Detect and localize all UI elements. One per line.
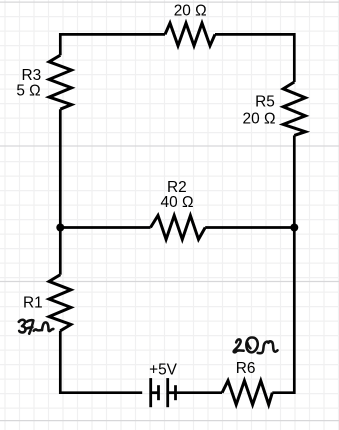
svg-text:20 Ω: 20 Ω — [174, 3, 207, 20]
battery +5V (two cells) — [151, 378, 176, 407]
resistor R3 (5 ohm) zigzag — [49, 55, 71, 109]
node: right middle junction — [290, 224, 298, 232]
resistor R2 (40 ohm) zigzag — [151, 216, 206, 240]
wire: middle branch, left junction to R2 — [60, 226, 150, 229]
svg-text:R6: R6 — [236, 360, 256, 377]
svg-text:R5: R5 — [255, 93, 275, 110]
svg-text:40 Ω: 40 Ω — [161, 194, 194, 211]
resistor 20 ohm (top) zigzag — [165, 23, 215, 46]
wire: top-left corner (top rail left segment + left rail top) — [60, 34, 165, 55]
svg-text:R1: R1 — [23, 295, 43, 312]
wire: top-right corner, right rail top to top rail right segment — [215, 34, 294, 82]
svg-text:5 Ω: 5 Ω — [16, 82, 40, 99]
resistor R6 (20 ohm) zigzag — [222, 381, 272, 405]
wire: left rail, middle junction to R1 — [59, 228, 62, 275]
svg-text:+5V: +5V — [149, 362, 178, 379]
wire: bottom-left corner, R1 down and right to battery — [60, 331, 142, 393]
wire: right rail, middle junction up to R5 — [293, 135, 296, 227]
wire: bottom-right corner, R6 to right rail up to middle junction — [272, 228, 294, 393]
handwritten annotation: 37 ohm next to R1 — [19, 320, 54, 334]
wire: middle branch, R2 to right junction — [205, 226, 294, 229]
resistor R5 (20 ohm) zigzag — [283, 82, 305, 135]
handwritten annotation: 20 ohm above R6 — [234, 337, 278, 353]
resistor R1 (37 ohm) zigzag — [49, 275, 71, 331]
svg-text:20 Ω: 20 Ω — [243, 111, 276, 128]
node: left middle junction — [56, 224, 64, 232]
wire: left rail, R3 to middle junction — [59, 109, 62, 227]
wire: battery to R6 — [176, 391, 223, 394]
svg-text:R3: R3 — [22, 67, 42, 84]
